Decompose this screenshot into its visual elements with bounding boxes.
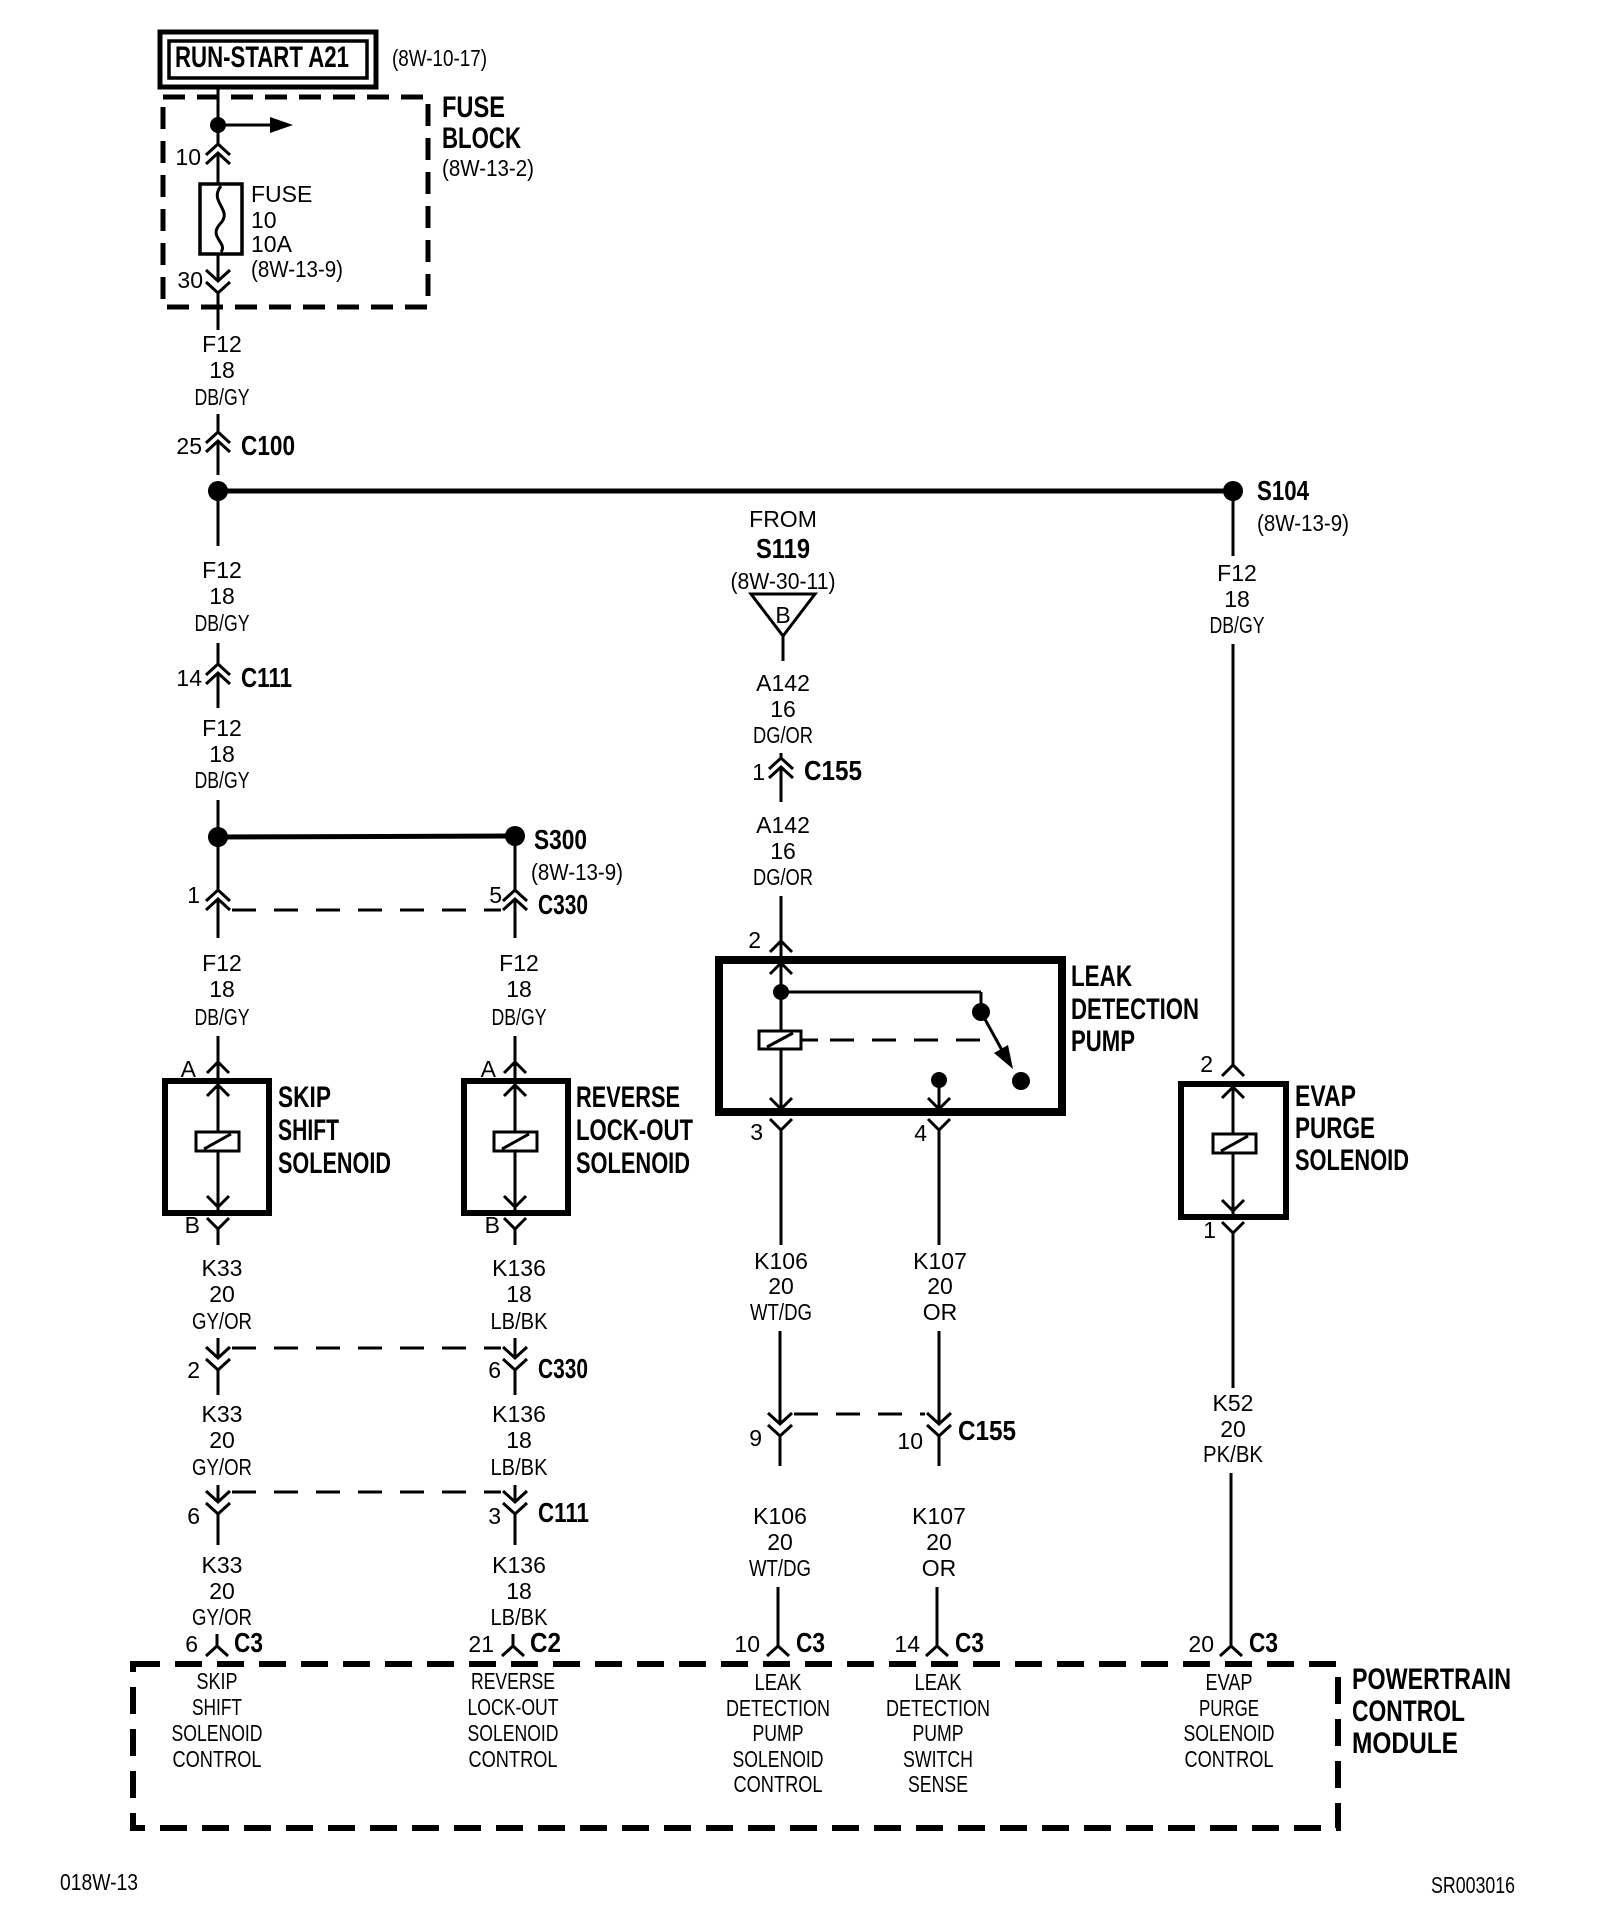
connector C155 pin 10 (897, 1413, 1016, 1454)
wire to C155 pin 10 (938, 1331, 941, 1424)
svg-text:(8W-13-9): (8W-13-9) (1257, 510, 1349, 536)
svg-text:(8W-10-17): (8W-10-17) (392, 45, 487, 71)
wires below C111 row (217, 1514, 220, 1545)
connector C330 pin 6 (488, 1347, 588, 1384)
svg-text:SOLENOID: SOLENOID (468, 1720, 559, 1746)
wire label K33 20 GY/OR (2nd) (192, 1401, 252, 1480)
svg-text:DB/GY: DB/GY (195, 1004, 250, 1030)
wire below pin B col2 (514, 1229, 517, 1245)
svg-text:K52: K52 (1213, 1390, 1254, 1416)
svg-text:20: 20 (1220, 1416, 1246, 1442)
svg-text:SENSE: SENSE (908, 1771, 968, 1797)
svg-text:PUMP: PUMP (753, 1720, 804, 1746)
svg-text:SR003016: SR003016 (1431, 1872, 1515, 1898)
svg-text:SOLENOID: SOLENOID (576, 1147, 690, 1180)
svg-text:DETECTION: DETECTION (1071, 993, 1199, 1026)
PCM label leak detection pump switch sense (886, 1669, 990, 1797)
svg-text:20: 20 (209, 1578, 235, 1604)
svg-text:PUMP: PUMP (913, 1720, 964, 1746)
dashed connector link C155 (794, 1413, 925, 1416)
wire label F12 18 DB/GY (second) (195, 491, 250, 664)
svg-text:K106: K106 (753, 1503, 807, 1529)
svg-text:F12: F12 (202, 715, 242, 741)
svg-text:DETECTION: DETECTION (726, 1695, 830, 1721)
svg-text:(8W-30-11): (8W-30-11) (731, 568, 836, 594)
wire exiting fuse block (217, 293, 220, 330)
svg-text:DB/GY: DB/GY (195, 384, 250, 410)
svg-text:GY/OR: GY/OR (192, 1454, 252, 1480)
wire label F12 18 DB/GY (col2) (492, 899, 547, 1084)
wire to PCM pin 21 C2 (512, 1634, 515, 1646)
powertrain control module label (1352, 1663, 1511, 1760)
wire S104 down (1232, 491, 1235, 556)
svg-text:5: 5 (489, 882, 502, 908)
svg-text:4: 4 (914, 1120, 927, 1146)
svg-text:S300: S300 (534, 824, 587, 855)
svg-text:C330: C330 (538, 889, 588, 920)
reverse lock-out coil (494, 1084, 537, 1210)
PCM pin 21 C2 (468, 1627, 561, 1658)
RUN-START A21 source box (160, 32, 376, 87)
svg-text:PURGE: PURGE (1199, 1695, 1259, 1721)
svg-text:20: 20 (1188, 1631, 1214, 1657)
svg-text:GY/OR: GY/OR (192, 1308, 252, 1334)
wire label K52 20 PK/BK (1203, 1390, 1264, 1467)
wire fuse to cavity 30 (217, 254, 220, 281)
pump pin 2 (748, 927, 792, 974)
splice S104 (1223, 475, 1349, 536)
svg-text:SKIP: SKIP (278, 1081, 331, 1114)
svg-text:C3: C3 (1249, 1627, 1278, 1658)
wire to C330 pin 2 (217, 1338, 220, 1358)
svg-text:S119: S119 (756, 533, 810, 564)
svg-text:SWITCH: SWITCH (903, 1746, 973, 1772)
svg-text:OR: OR (923, 1299, 958, 1325)
fuse 10 10A (200, 184, 242, 254)
svg-text:K106: K106 (754, 1248, 808, 1274)
svg-text:S104: S104 (1257, 475, 1309, 506)
svg-text:REVERSE: REVERSE (471, 1668, 555, 1694)
pump internal wire to switch pivot (781, 992, 981, 1005)
svg-text:1: 1 (187, 882, 200, 908)
svg-text:K33: K33 (202, 1401, 243, 1427)
svg-text:RUN-START A21: RUN-START A21 (175, 41, 349, 74)
svg-text:C100: C100 (241, 430, 295, 461)
wire to pump pin 2 (780, 896, 783, 963)
svg-text:F12: F12 (1217, 560, 1257, 586)
wire label K136 18 LB/BK (3rd) (491, 1552, 549, 1630)
svg-text:CONTROL: CONTROL (173, 1746, 262, 1772)
svg-text:K107: K107 (912, 1503, 966, 1529)
skip shift solenoid label (278, 1081, 391, 1180)
svg-text:F12: F12 (499, 950, 539, 976)
svg-text:CONTROL: CONTROL (469, 1746, 558, 1772)
wire label F12 18 DB/GY (left col 4th) (195, 899, 250, 1084)
wire from RUN-START into fuse block (217, 87, 220, 144)
svg-text:1: 1 (752, 759, 765, 785)
switch blade with arrow (981, 1012, 1013, 1069)
coil to switch mechanical link (801, 1039, 994, 1042)
pin B chevrons skip shift (207, 1196, 229, 1229)
pump pin 3 (750, 1098, 792, 1245)
svg-text:MODULE: MODULE (1352, 1727, 1458, 1760)
wire label K107 20 OR (2nd) (912, 1503, 966, 1581)
connector C330 pin 1 (187, 882, 230, 910)
svg-text:2: 2 (187, 1357, 200, 1383)
svg-text:LEAK: LEAK (755, 1669, 803, 1695)
svg-text:10: 10 (897, 1428, 923, 1454)
svg-text:14: 14 (176, 665, 202, 691)
off-page triangle B (751, 594, 815, 636)
svg-text:B: B (485, 1212, 500, 1238)
svg-text:K136: K136 (492, 1552, 546, 1578)
svg-text:18: 18 (209, 583, 235, 609)
wire label K33 20 GY/OR (3rd) (192, 1552, 252, 1630)
PCM label skip shift solenoid control (172, 1668, 263, 1772)
svg-text:FUSE: FUSE (442, 91, 505, 124)
pin A chevrons reverse lockout (504, 1062, 526, 1096)
svg-text:SHIFT: SHIFT (278, 1114, 339, 1147)
wire to PCM pin 14 C3 (936, 1587, 939, 1646)
svg-text:WT/DG: WT/DG (750, 1299, 812, 1325)
wire below triangle (782, 636, 785, 661)
svg-text:18: 18 (1224, 586, 1250, 612)
wire to C155 pin 9 (779, 1331, 782, 1424)
connector C155 pin 1 (752, 755, 862, 786)
svg-text:K33: K33 (202, 1255, 243, 1281)
svg-text:10A: 10A (251, 231, 293, 257)
svg-text:10: 10 (175, 144, 201, 170)
dashed connector link C330 (232, 909, 501, 912)
svg-text:A142: A142 (756, 812, 810, 838)
evap coil (1213, 1087, 1256, 1214)
svg-text:PURGE: PURGE (1295, 1112, 1375, 1145)
svg-text:B: B (185, 1212, 200, 1238)
connector chevrons cavity 30 (206, 270, 230, 293)
svg-text:2: 2 (1200, 1051, 1213, 1077)
svg-text:16: 16 (770, 696, 796, 722)
wire label K107 20 OR (1st) (913, 1248, 967, 1325)
connector C330 pin 5 (489, 882, 588, 920)
svg-text:C2: C2 (530, 1627, 561, 1658)
arrow tap to other circuits (218, 117, 293, 133)
svg-text:20: 20 (209, 1281, 235, 1307)
svg-text:16: 16 (770, 838, 796, 864)
svg-text:DB/GY: DB/GY (195, 610, 250, 636)
wire label A142 16 DG/OR (1st) (753, 670, 813, 748)
svg-text:C330: C330 (538, 1353, 588, 1384)
wire below pin B (217, 1229, 220, 1245)
pump pin 4 (914, 1098, 950, 1245)
svg-text:LEAK: LEAK (915, 1669, 963, 1695)
wire (217, 414, 220, 432)
svg-text:(8W-13-2): (8W-13-2) (442, 155, 534, 181)
svg-text:18: 18 (506, 1281, 532, 1307)
pin A chevrons skip shift (207, 1062, 229, 1096)
svg-text:20: 20 (767, 1529, 793, 1555)
svg-text:K136: K136 (492, 1255, 546, 1281)
wire label A142 16 DG/OR (2nd) (753, 767, 813, 890)
connector C330 pin 2 (187, 1347, 230, 1383)
PCM label leak detection pump solenoid control (726, 1669, 830, 1797)
svg-text:30: 30 (177, 267, 203, 293)
svg-text:B: B (775, 602, 790, 628)
wire label K136 18 LB/BK (1st) (491, 1255, 549, 1334)
svg-text:DG/OR: DG/OR (753, 864, 813, 890)
svg-text:18: 18 (209, 976, 235, 1002)
svg-text:20: 20 (209, 1427, 235, 1453)
wire to C155 pin 1 (780, 753, 783, 758)
svg-text:18: 18 (209, 741, 235, 767)
svg-text:C3: C3 (234, 1627, 263, 1658)
svg-text:DB/GY: DB/GY (195, 767, 250, 793)
svg-text:2: 2 (748, 927, 761, 953)
svg-text:C155: C155 (804, 755, 862, 786)
svg-text:EVAP: EVAP (1295, 1080, 1356, 1113)
wire label K136 18 LB/BK (2nd) (491, 1401, 549, 1480)
wire (217, 441, 220, 475)
fuse block dashed box (163, 97, 428, 307)
svg-text:K107: K107 (913, 1248, 967, 1274)
splice S300 (505, 824, 623, 885)
svg-text:18: 18 (506, 976, 532, 1002)
svg-text:LEAK: LEAK (1071, 960, 1132, 993)
long wire to evap solenoid (1232, 644, 1235, 1066)
svg-text:C3: C3 (955, 1627, 984, 1658)
svg-text:(8W-13-9): (8W-13-9) (251, 256, 343, 282)
svg-text:LOCK-OUT: LOCK-OUT (576, 1114, 693, 1147)
PCM pin 6 C3 (185, 1627, 263, 1658)
wire to C330 pin 6 (514, 1338, 517, 1358)
wire to PCM pin 6 C3 (216, 1634, 219, 1646)
svg-text:1: 1 (1203, 1217, 1216, 1243)
wire to splice S300 (218, 836, 515, 837)
svg-text:PUMP: PUMP (1071, 1025, 1135, 1058)
skip shift solenoid box (165, 1081, 269, 1213)
PCM label reverse lock-out solenoid control (468, 1668, 559, 1772)
svg-text:REVERSE: REVERSE (576, 1081, 680, 1114)
wire below junction (217, 837, 220, 890)
svg-text:EVAP: EVAP (1206, 1669, 1253, 1695)
svg-text:POWERTRAIN: POWERTRAIN (1352, 1663, 1511, 1696)
PCM pin 10 C3 (734, 1627, 825, 1658)
wires below C155 row (779, 1436, 782, 1466)
junction dot to trunk (208, 481, 228, 501)
pump solenoid coil (759, 1031, 801, 1049)
svg-text:F12: F12 (202, 557, 242, 583)
svg-text:18: 18 (506, 1427, 532, 1453)
wire label K106 20 WT/DG (1st) (750, 1248, 812, 1325)
wire label K33 20 GY/OR (1st) (192, 1255, 252, 1334)
fuse block label (442, 91, 534, 181)
svg-text:6: 6 (187, 1503, 200, 1529)
evap pin 1 (1203, 1200, 1244, 1388)
svg-text:3: 3 (750, 1119, 763, 1145)
PCM pin 14 C3 (894, 1627, 984, 1658)
wire to PCM pin 20 C3 (1230, 1473, 1233, 1646)
svg-text:WT/DG: WT/DG (749, 1555, 811, 1581)
svg-text:18: 18 (209, 357, 235, 383)
dashed connector link C330 lower (232, 1347, 501, 1350)
evap purge solenoid label (1295, 1080, 1409, 1177)
svg-text:PK/BK: PK/BK (1203, 1441, 1264, 1467)
svg-text:25: 25 (176, 433, 202, 459)
svg-text:9: 9 (749, 1425, 762, 1451)
connector chevrons cavity 10 (206, 144, 230, 164)
svg-text:A142: A142 (756, 670, 810, 696)
switch pivot dot (972, 1003, 990, 1021)
wire to C111 pin 6 (217, 1485, 220, 1502)
junction dot at top of fuse block (210, 117, 226, 133)
wire to C111 pin 3 (514, 1485, 517, 1502)
svg-text:6: 6 (185, 1631, 198, 1657)
pin B chevrons reverse lockout (504, 1196, 526, 1229)
trunk wire to S104 (218, 489, 1233, 494)
wires below C330 row (217, 1370, 220, 1395)
connector C100 pin 25 (176, 430, 295, 461)
svg-text:SOLENOID: SOLENOID (733, 1746, 824, 1772)
reverse lock-out solenoid box (464, 1081, 568, 1213)
leak detection pump label (1071, 960, 1199, 1058)
wire label K106 20 WT/DG (2nd) (749, 1503, 811, 1581)
leak detection pump box (719, 960, 1062, 1112)
skip shift coil (196, 1084, 239, 1210)
connector C111 pin 3 (488, 1491, 589, 1529)
svg-text:FUSE: FUSE (251, 181, 312, 207)
svg-text:18: 18 (506, 1578, 532, 1604)
svg-text:C111: C111 (241, 662, 292, 693)
pump internal junction dot (773, 963, 789, 1031)
wire label F12 18 DB/GY (right col) (1210, 560, 1265, 638)
svg-text:SHIFT: SHIFT (192, 1694, 242, 1720)
fuse value label (251, 181, 343, 282)
svg-text:(8W-13-9): (8W-13-9) (531, 859, 623, 885)
pump pin 4 internal dot (931, 1072, 947, 1109)
svg-text:10: 10 (734, 1631, 760, 1657)
svg-text:LB/BK: LB/BK (491, 1454, 549, 1480)
wire label F12 18 DB/GY (third) (195, 673, 250, 828)
svg-text:K136: K136 (492, 1401, 546, 1427)
svg-text:018W-13: 018W-13 (60, 1869, 138, 1895)
svg-text:K33: K33 (202, 1552, 243, 1578)
svg-text:SOLENOID: SOLENOID (1184, 1720, 1275, 1746)
svg-text:SOLENOID: SOLENOID (172, 1720, 263, 1746)
dashed connector link C111 (232, 1491, 501, 1494)
svg-text:SOLENOID: SOLENOID (278, 1147, 391, 1180)
svg-text:20: 20 (768, 1273, 794, 1299)
evap pin 2 (1200, 1051, 1244, 1098)
reverse lock-out solenoid label (576, 1081, 693, 1180)
svg-text:FROM: FROM (749, 506, 817, 532)
svg-text:10: 10 (251, 207, 277, 233)
svg-text:21: 21 (468, 1631, 494, 1657)
PCM pin 20 C3 (1188, 1627, 1278, 1658)
svg-text:CONTROL: CONTROL (1352, 1695, 1465, 1728)
from S119 label (731, 506, 836, 594)
svg-text:20: 20 (926, 1529, 952, 1555)
switch contact dot (1012, 1072, 1030, 1090)
wire S300 to C330 pin 5 (514, 836, 517, 890)
wire to PCM pin 10 C3 (777, 1587, 780, 1646)
svg-text:DB/GY: DB/GY (1210, 612, 1265, 638)
svg-text:OR: OR (922, 1555, 957, 1581)
svg-text:SOLENOID: SOLENOID (1295, 1144, 1409, 1177)
connector C111 pin 14 (176, 662, 292, 693)
svg-text:DB/GY: DB/GY (492, 1004, 547, 1030)
powertrain control module dashed box (133, 1664, 1338, 1828)
svg-text:F12: F12 (202, 331, 242, 357)
svg-text:20: 20 (927, 1273, 953, 1299)
svg-text:SKIP: SKIP (197, 1668, 238, 1694)
svg-text:C155: C155 (958, 1415, 1016, 1446)
connector C155 pin 9 (749, 1413, 792, 1451)
svg-text:C3: C3 (796, 1627, 825, 1658)
svg-text:DG/OR: DG/OR (753, 722, 813, 748)
evap purge solenoid box (1181, 1084, 1286, 1217)
svg-text:LB/BK: LB/BK (491, 1308, 549, 1334)
svg-text:BLOCK: BLOCK (442, 122, 521, 155)
svg-text:F12: F12 (202, 950, 242, 976)
wire to fuse (217, 153, 220, 184)
svg-text:6: 6 (488, 1357, 501, 1383)
svg-text:LOCK-OUT: LOCK-OUT (468, 1694, 559, 1720)
svg-text:C111: C111 (538, 1497, 589, 1528)
svg-text:14: 14 (894, 1631, 920, 1657)
connector C111 pin 6 (187, 1491, 230, 1529)
svg-text:CONTROL: CONTROL (734, 1771, 823, 1797)
svg-text:DETECTION: DETECTION (886, 1695, 990, 1721)
svg-text:CONTROL: CONTROL (1185, 1746, 1274, 1772)
PCM label evap purge solenoid control (1184, 1669, 1275, 1772)
wire coil to pin 3 (780, 1049, 783, 1110)
junction dot to S300 (208, 827, 228, 847)
wire label F12 18 DB/GY (top) (195, 331, 250, 410)
svg-text:3: 3 (488, 1503, 501, 1529)
